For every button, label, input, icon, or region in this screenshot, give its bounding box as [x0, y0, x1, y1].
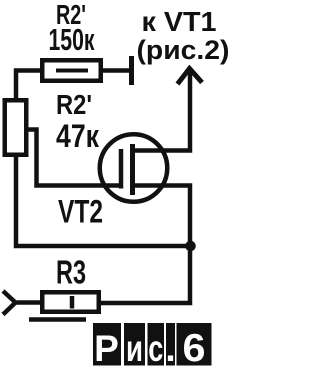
svg-text:.: .	[165, 328, 175, 369]
svg-text:Р: Р	[94, 328, 119, 369]
svg-text:VT2: VT2	[58, 194, 103, 230]
svg-text:R3: R3	[56, 254, 86, 291]
svg-text:и: и	[126, 328, 143, 369]
svg-text:150к: 150к	[49, 22, 95, 57]
svg-text:с: с	[148, 328, 163, 369]
svg-text:(рис.2): (рис.2)	[137, 35, 230, 65]
svg-text:6: 6	[183, 327, 206, 370]
svg-text:R2': R2'	[56, 89, 92, 120]
svg-text:47к: 47к	[56, 118, 100, 154]
svg-text:к VT1: к VT1	[142, 6, 217, 37]
